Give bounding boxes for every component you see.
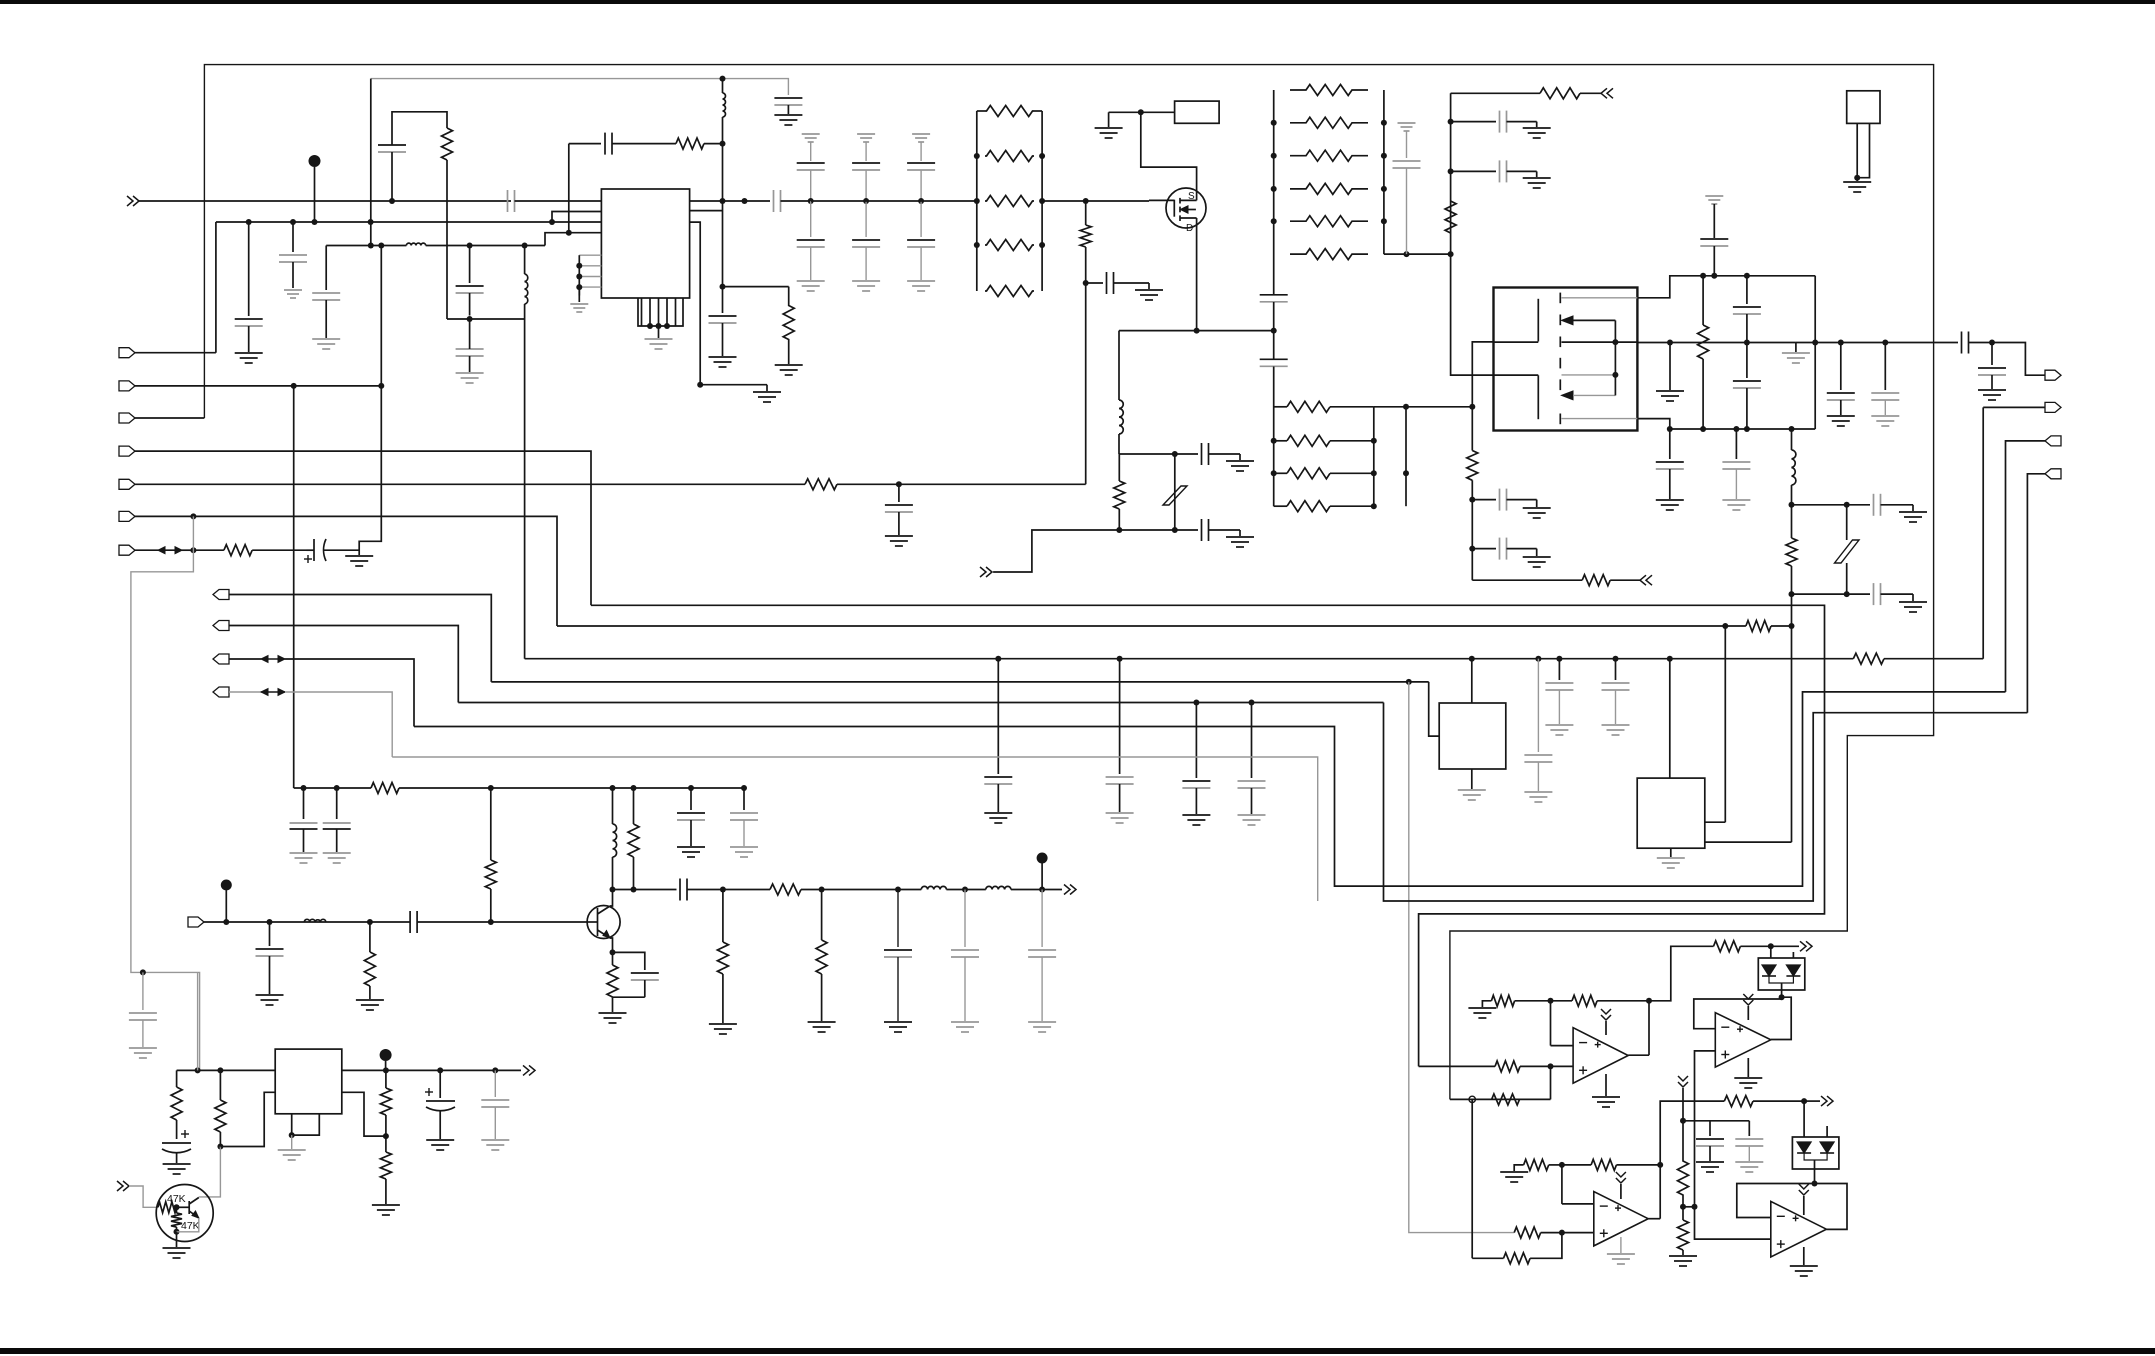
svg-text:47K: 47K	[181, 1220, 200, 1232]
svg-text:S: S	[1188, 191, 1195, 202]
svg-text:D: D	[1186, 223, 1193, 234]
svg-text:47K: 47K	[167, 1193, 186, 1205]
